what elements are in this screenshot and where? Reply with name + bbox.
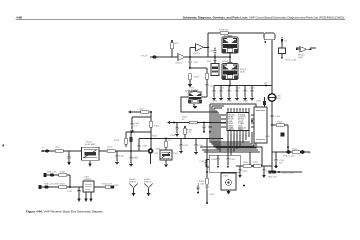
svg-text:Q100: Q100 bbox=[155, 149, 161, 151]
svg-text:RXB_CLK: RXB_CLK bbox=[47, 172, 57, 174]
svg-text:R121: R121 bbox=[253, 162, 259, 164]
svg-text:44.85: 44.85 bbox=[240, 72, 246, 74]
svg-text:C151: C151 bbox=[67, 191, 73, 193]
svg-text:R130: R130 bbox=[292, 149, 298, 151]
svg-text:R104: R104 bbox=[154, 126, 160, 128]
svg-text:R179: R179 bbox=[194, 77, 200, 79]
svg-text:43.65: 43.65 bbox=[193, 91, 199, 93]
svg-text:C116: C116 bbox=[119, 156, 125, 158]
svg-text:4-88: 4-88 bbox=[16, 15, 22, 19]
svg-text:R120: R120 bbox=[243, 162, 249, 164]
svg-text:U104: U104 bbox=[298, 57, 304, 59]
svg-text:C105: C105 bbox=[250, 88, 256, 90]
svg-text:C118: C118 bbox=[142, 146, 148, 148]
svg-text:MOD_1_IN: MOD_1_IN bbox=[286, 60, 297, 62]
svg-text:Y102: Y102 bbox=[206, 61, 212, 63]
svg-text:GND1: GND1 bbox=[228, 129, 233, 131]
svg-text:C101: C101 bbox=[219, 88, 225, 90]
svg-text:10K: 10K bbox=[200, 184, 204, 186]
svg-text:C141: C141 bbox=[230, 159, 236, 161]
svg-text:U103: U103 bbox=[223, 176, 229, 178]
svg-text:C113: C113 bbox=[183, 145, 189, 147]
svg-text:R151: R151 bbox=[60, 184, 66, 186]
svg-text:Y101: Y101 bbox=[173, 153, 179, 155]
svg-text:4.7K: 4.7K bbox=[187, 132, 192, 134]
svg-text:Schematic Diagrams, Overlays,: Schematic Diagrams, Overlays, and Parts … bbox=[183, 15, 344, 19]
svg-text:C190: C190 bbox=[209, 51, 215, 53]
svg-text:U102-2: U102-2 bbox=[175, 63, 183, 65]
svg-text:C106: C106 bbox=[256, 101, 262, 103]
svg-text:C109: C109 bbox=[170, 135, 176, 137]
svg-text:C108: C108 bbox=[275, 116, 281, 118]
svg-text:R105: R105 bbox=[114, 140, 120, 142]
svg-text:R108: R108 bbox=[277, 122, 283, 124]
svg-text:C102: C102 bbox=[227, 101, 233, 103]
svg-text:RXB_1_DAT: RXB_1_DAT bbox=[282, 172, 294, 175]
svg-text:LM4865: LM4865 bbox=[84, 179, 92, 181]
svg-text:C103: C103 bbox=[235, 88, 241, 90]
svg-text:R178 330: R178 330 bbox=[219, 30, 229, 32]
svg-text:C142: C142 bbox=[199, 161, 205, 163]
svg-text:44.85 MHZ: 44.85 MHZ bbox=[85, 144, 96, 146]
svg-text:C191: C191 bbox=[193, 62, 199, 64]
svg-text:FL101: FL101 bbox=[222, 61, 229, 63]
svg-text:Figure 4-66. VHF Receiver Bac: Figure 4-66. VHF Receiver Back End Schem… bbox=[26, 209, 104, 213]
svg-text:R177: R177 bbox=[174, 43, 180, 45]
svg-text:R152 4.7K: R152 4.7K bbox=[102, 184, 112, 186]
svg-text:C112: C112 bbox=[153, 153, 159, 155]
svg-text:C150: C150 bbox=[66, 158, 72, 160]
svg-text:SHIELD: SHIELD bbox=[129, 181, 137, 183]
svg-text:C120: C120 bbox=[242, 171, 248, 173]
svg-text:C192: C192 bbox=[210, 86, 216, 88]
svg-text:R150: R150 bbox=[60, 172, 66, 174]
svg-text:RX_IF: RX_IF bbox=[142, 56, 149, 58]
svg-text:U102-1: U102-1 bbox=[193, 53, 201, 55]
svg-text:C117: C117 bbox=[133, 157, 139, 159]
svg-text:C104: C104 bbox=[243, 101, 249, 103]
svg-text:U101: U101 bbox=[265, 136, 271, 138]
svg-text:GND2: GND2 bbox=[238, 129, 243, 131]
svg-text:SHIELD: SHIELD bbox=[144, 181, 152, 183]
svg-text:C121: C121 bbox=[266, 171, 272, 173]
svg-text:C140: C140 bbox=[211, 159, 217, 161]
svg-text:C100: C100 bbox=[212, 101, 218, 103]
svg-text:C115: C115 bbox=[209, 194, 215, 196]
svg-text:GND_RX: GND_RX bbox=[268, 177, 277, 179]
svg-text:RXB_CLK_BUF: RXB_CLK_BUF bbox=[44, 184, 60, 186]
svg-text:C114: C114 bbox=[198, 145, 204, 147]
svg-text:RXB_1_CLK: RXB_1_CLK bbox=[283, 156, 295, 158]
svg-text:R106: R106 bbox=[152, 136, 158, 138]
svg-text:FL100: FL100 bbox=[224, 36, 231, 38]
